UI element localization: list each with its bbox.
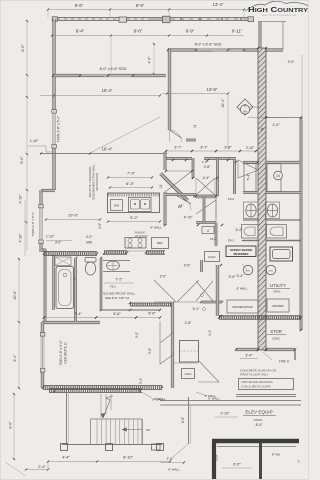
wall under tubs <box>242 240 258 242</box>
bottom dim line stairs <box>48 461 170 463</box>
note box OFFSET SHOWN REVERSED <box>226 246 256 257</box>
leader 5 wall <box>196 392 207 396</box>
jog step lines <box>28 145 46 147</box>
washer dryer left <box>227 300 258 313</box>
leader fire door <box>263 352 272 360</box>
hvac2 box <box>182 369 195 379</box>
svg-text:8′-6″: 8′-6″ <box>75 3 84 8</box>
dim 7'-4 / 5'-6 bedroom2 <box>44 317 160 319</box>
svg-text:3′-6″: 3′-6″ <box>184 264 192 268</box>
svg-text:8″ WALL: 8″ WALL <box>168 468 180 472</box>
svg-text:CEN (NOTE 2): CEN (NOTE 2) <box>64 342 68 363</box>
svg-text:8′-0″: 8′-0″ <box>21 44 25 52</box>
wall under toilets <box>243 219 258 221</box>
svg-text:6′-9″: 6′-9″ <box>186 29 195 34</box>
door swing hall <box>196 200 216 222</box>
top wall window mullion <box>119 17 127 22</box>
svg-text:3′-0″: 3′-0″ <box>288 60 296 64</box>
svg-text:3′-8″: 3′-8″ <box>148 347 152 354</box>
svg-text:4′-4″: 4′-4″ <box>62 456 70 460</box>
svg-text:4′-10″: 4′-10″ <box>19 233 23 243</box>
dim 13'-8 bedroom1 <box>167 93 228 95</box>
note TWIN CEN window bedroom <box>41 335 44 370</box>
svg-text:16′-4″: 16′-4″ <box>102 147 113 152</box>
svg-text:8″ WALL: 8″ WALL <box>237 287 248 291</box>
stipple wall kitchen side <box>104 251 127 254</box>
dim 1'-0 firewall <box>248 117 285 119</box>
entry walls <box>201 260 203 272</box>
svg-text:2′-4″: 2′-4″ <box>38 465 46 469</box>
right closet walls <box>266 161 283 163</box>
svg-text:SEE DTL SHT A4: SEE DTL SHT A4 <box>105 296 130 300</box>
svg-text:6′-1″: 6′-1″ <box>193 307 201 311</box>
door arc kitchen entry <box>177 196 191 210</box>
dim 10'-0 <box>46 219 100 221</box>
svg-text:UTILITY: UTILITY <box>270 283 286 288</box>
svg-text:3′-7″: 3′-7″ <box>174 146 182 150</box>
right bathtub <box>267 225 287 239</box>
svg-text:8′-4″: 8′-4″ <box>13 354 17 362</box>
svg-text:F5-2: F5-2 <box>228 197 235 201</box>
svg-text:4′-0″: 4′-0″ <box>148 56 152 64</box>
top wall door post <box>163 16 171 23</box>
left toilet <box>244 202 259 219</box>
svg-text:14: 14 <box>276 174 280 178</box>
wc room right wall <box>217 158 219 196</box>
deck edge line right of firewall <box>258 21 286 23</box>
svg-text:CONC: CONC <box>254 418 264 422</box>
svg-text:7′-: 7′- <box>297 460 300 464</box>
svg-text:8′-10″: 8′-10″ <box>123 456 133 460</box>
dim extent bottom left <box>5 462 26 476</box>
svg-text:F5-1: F5-1 <box>110 285 116 289</box>
opening ticks scatter <box>165 170 167 172</box>
svg-text:3′-4″: 3′-4″ <box>245 354 253 358</box>
svg-text:VINYL: VINYL <box>273 290 281 294</box>
svg-text:6′-2″: 6′-2″ <box>236 228 244 232</box>
svg-text:6′-11″: 6′-11″ <box>232 29 243 34</box>
left wall jog at living room <box>41 189 55 191</box>
left wall TWIN window <box>53 112 56 146</box>
left exterior wall mid <box>40 190 42 252</box>
svg-text:9′-2″: 9′-2″ <box>130 215 139 220</box>
top wall corner post left <box>52 17 57 22</box>
bath top walls <box>166 157 192 159</box>
svg-text:8′-0″ x 6′-8″ SGD: 8′-0″ x 6′-8″ SGD <box>195 43 222 47</box>
door swings bedroom2 <box>160 321 174 343</box>
circle 14 marker <box>274 171 283 180</box>
svg-text:8′-4″: 8′-4″ <box>76 29 85 34</box>
svg-text:7″: 7″ <box>73 277 76 281</box>
hall west wall <box>164 152 166 170</box>
svg-text:1′-10″: 1′-10″ <box>46 235 55 239</box>
center vertical wall <box>188 397 190 444</box>
svg-text:SECTION R/44: SECTION R/44 <box>95 173 99 191</box>
svg-text:4′-4″: 4′-4″ <box>203 176 211 180</box>
svg-text:2′-8″: 2′-8″ <box>204 165 212 169</box>
closet bottom walls <box>243 192 258 194</box>
svg-text:TR′D WOOD DECKING: TR′D WOOD DECKING <box>241 380 273 384</box>
stair bottom wall <box>62 444 162 446</box>
leader to sheathing note <box>89 117 160 154</box>
svg-text:HVAC: HVAC <box>184 372 191 376</box>
svg-text:6″ WALL: 6″ WALL <box>208 397 220 401</box>
svg-text:2 ND & 3RD FLOORS: 2 ND & 3RD FLOORS <box>241 385 271 389</box>
wc double door X <box>196 178 215 195</box>
stair direction line with break <box>103 396 113 418</box>
svg-text:10′-6″: 10′-6″ <box>13 290 17 300</box>
svg-text:4′-6″: 4′-6″ <box>98 222 102 229</box>
left wall corner at bath <box>41 249 46 251</box>
svg-text:8″ WALL: 8″ WALL <box>150 226 162 230</box>
svg-text:4′-=6″: 4′-=6″ <box>184 216 194 220</box>
left SGD door symbol <box>80 73 108 75</box>
leader wh <box>242 264 247 270</box>
dim 7'-3 kitchen <box>108 177 152 179</box>
svg-text:16′-1″: 16′-1″ <box>221 98 225 108</box>
svg-text:10′-0″: 10′-0″ <box>68 213 79 218</box>
svg-text:3′-0″: 3′-0″ <box>55 241 62 245</box>
wall right of toilet <box>100 258 102 310</box>
dim 8'-4 left rot <box>18 323 20 389</box>
right SGD door symbol <box>196 48 228 50</box>
dim line 16'-4 upper <box>40 95 160 97</box>
closet2 box <box>180 341 199 363</box>
svg-text:WASHER/DRYER: WASHER/DRYER <box>232 306 252 309</box>
svg-text:5′-6″: 5′-6″ <box>229 275 237 279</box>
svg-text:13′-4″: 13′-4″ <box>213 2 224 7</box>
dim 10'-6 left rot <box>18 258 20 323</box>
master vanity <box>103 260 130 262</box>
svg-text:4′: 4′ <box>207 229 210 233</box>
register box <box>202 227 214 234</box>
stair landing line <box>91 418 143 420</box>
svg-text:6′-3″: 6′-3″ <box>126 181 135 186</box>
svg-text:W.H.: W.H. <box>246 271 251 273</box>
svg-text:REQUIREMENTS THIS WALL: REQUIREMENTS THIS WALL <box>92 164 96 200</box>
master bathtub <box>56 267 74 309</box>
svg-text:16′-4″: 16′-4″ <box>102 88 113 93</box>
washer dryer right <box>267 299 289 312</box>
svg-text:6′-5″: 6′-5″ <box>233 463 241 467</box>
double lines below note <box>236 394 296 396</box>
dim 4'-10 left rot <box>24 200 26 256</box>
svg-text:5′: 5′ <box>194 125 197 129</box>
svg-text:MIN: MIN <box>86 241 93 245</box>
door swing large bottom <box>198 360 219 382</box>
interior wall right of bedroom2 <box>171 303 173 388</box>
door header line in gap <box>127 250 146 252</box>
bedroom left exterior wall <box>41 322 44 388</box>
top dimension line <box>48 9 244 11</box>
office shown reversed dark box <box>223 245 225 247</box>
left closet walls (west of firewall) <box>243 161 258 163</box>
east wall of right rooms <box>300 117 302 330</box>
svg-text:11′: 11′ <box>159 184 163 188</box>
svg-text:ELIM: ELIM <box>215 455 219 461</box>
svg-text:TWIN 2′-8″ x 5′-0″: TWIN 2′-8″ x 5′-0″ <box>57 115 61 142</box>
right rooms upper wall <box>266 117 301 119</box>
wall under tub room <box>42 321 100 323</box>
svg-text:2′-10″: 2′-10″ <box>220 412 230 416</box>
svg-text:6″ WALL: 6″ WALL <box>154 397 166 401</box>
door swing bath1 <box>165 171 192 192</box>
leader 6 wall <box>140 391 152 398</box>
svg-text:8′-0″: 8′-0″ <box>134 29 143 34</box>
svg-text:A4: A4 <box>243 110 247 114</box>
svg-text:OFFSET SHOWN: OFFSET SHOWN <box>230 248 252 252</box>
svg-text:7′-6″: 7′-6″ <box>166 457 174 461</box>
svg-text:2′-10″: 2′-10″ <box>246 146 255 150</box>
svg-text:4′-4″: 4′-4″ <box>208 329 212 336</box>
svg-text:3′-7″: 3′-7″ <box>200 146 208 150</box>
refrigerator REF <box>152 238 169 249</box>
stair right edge <box>141 419 143 445</box>
svg-text:CONC: CONC <box>272 337 280 341</box>
wc room left wall <box>192 158 194 178</box>
svg-text:8′-0″: 8′-0″ <box>9 421 13 429</box>
kitchen counter backsplash hatch <box>108 194 159 197</box>
guest side appliance box <box>270 247 293 261</box>
window jambs upper <box>52 110 57 114</box>
High Country logo mountain outline <box>245 1 308 11</box>
wall segment right of door <box>186 139 196 141</box>
svg-text:UP: UP <box>146 428 150 432</box>
boxed note wood decking <box>239 379 294 390</box>
svg-text:2′-8″: 2′-8″ <box>185 321 193 325</box>
thin wall from top wall down to SGD wall <box>259 21 261 49</box>
svg-text:TWIN 2′-8″ x 5′-0″: TWIN 2′-8″ x 5′-0″ <box>59 340 63 366</box>
dim 6'-9 <box>169 35 244 37</box>
small box left of elev room <box>152 444 161 450</box>
svg-text:M U L T I P L E L I S T I N: M U L T I P L E L I S T I N G S E R V I … <box>262 15 297 17</box>
svg-text:FIRST FLOOR ONLY: FIRST FLOOR ONLY <box>240 373 269 377</box>
dim 6'-3 kitchen <box>110 187 152 189</box>
section marker diamond 2/A4 <box>237 99 253 115</box>
master tub room walls <box>75 258 77 322</box>
kitchen angled wall <box>161 174 188 201</box>
elev room inner lines <box>217 446 296 448</box>
door swing bath2 <box>196 198 216 218</box>
svg-text:ELEV EQUIP: ELEV EQUIP <box>245 410 272 415</box>
stair treads <box>96 419 98 445</box>
bath closet wall right <box>233 160 235 194</box>
svg-text:3′-4″: 3′-4″ <box>139 377 143 384</box>
svg-text:TWIN 2′-8″ x 5′-0″: TWIN 2′-8″ x 5′-0″ <box>31 211 35 236</box>
hall middle wall <box>203 196 205 224</box>
svg-text:DW: DW <box>114 204 119 208</box>
dim extent bedroom1 <box>227 94 229 151</box>
svg-text:REF: REF <box>157 241 163 245</box>
left bathtub <box>242 225 259 239</box>
stair posts <box>61 444 68 451</box>
left SGD wall <box>53 74 166 77</box>
right SGD wall <box>168 49 283 52</box>
master toilet <box>85 258 96 263</box>
svg-text:13′-8″: 13′-8″ <box>207 87 218 92</box>
svg-text:7′-2″: 7′-2″ <box>115 278 123 282</box>
stipple wall kitchen side 2 <box>146 251 165 254</box>
left vertical dim chain <box>26 20 28 250</box>
dim extent line left <box>47 10 49 19</box>
elev room walls <box>212 439 299 444</box>
left dim 8'-0 bottom <box>13 393 15 460</box>
dimension line under top wall <box>52 35 169 37</box>
svg-text:1′-0″: 1′-0″ <box>272 123 280 127</box>
kitchen counter outline <box>108 193 160 213</box>
dim extent 111 <box>110 36 112 74</box>
stipple wall under washers <box>219 316 301 319</box>
dishwasher DW <box>111 200 123 211</box>
svg-text:HVAC: HVAC <box>208 255 216 259</box>
wall top bedroom2 right <box>130 303 172 306</box>
svg-text:F5-1: F5-1 <box>228 239 235 243</box>
dim 9'-2 <box>108 221 160 223</box>
svg-text:3′-0″: 3′-0″ <box>160 275 168 279</box>
svg-text:FIRE D: FIRE D <box>279 360 290 364</box>
double lines upper <box>160 400 301 402</box>
stair room left wall <box>66 392 68 445</box>
water heater circles <box>243 265 253 275</box>
svg-text:3′-0″: 3′-0″ <box>135 331 139 338</box>
bedroom1 door opening arc <box>170 130 182 142</box>
stair up arrow <box>122 429 142 431</box>
faint east wall upper <box>301 55 303 117</box>
stair top stipple wall <box>49 389 142 393</box>
svg-text:8′-0″ x 6′-8″ SGD: 8′-0″ x 6′-8″ SGD <box>100 67 127 71</box>
mid wall TWIN window <box>40 207 42 241</box>
top wall dots <box>180 18 182 20</box>
svg-text:8′-0″: 8′-0″ <box>20 156 24 164</box>
hvac small box left <box>205 252 220 262</box>
svg-text:6′-8″: 6′-8″ <box>181 416 185 423</box>
entry double door X leaves <box>196 281 213 301</box>
svg-text:F5-1: F5-1 <box>210 237 217 241</box>
svg-text:7′-4″: 7′-4″ <box>74 312 82 316</box>
bath inner wall <box>53 255 55 310</box>
svg-text:1′-10″: 1′-10″ <box>30 139 39 143</box>
svg-text:WASHER/: WASHER/ <box>272 305 284 308</box>
bedroom1 door leaf <box>170 130 182 138</box>
stipple wall master bath <box>44 252 97 256</box>
svg-text:5′-6″: 5′-6″ <box>113 312 121 316</box>
line from diamond to firewall <box>249 106 258 108</box>
svg-text:4′-0″: 4′-0″ <box>86 235 93 239</box>
svg-text:W.H.: W.H. <box>269 271 274 273</box>
stair upper flight break line <box>100 394 102 418</box>
bedroom2 bottom stipple wall <box>43 386 162 390</box>
svg-text:8′-4″: 8′-4″ <box>256 423 264 427</box>
left exterior wall upper <box>53 19 56 190</box>
hall east wall thick <box>216 265 219 316</box>
right rooms bottom wall <box>236 348 258 350</box>
svg-text:8′-6″: 8′-6″ <box>136 3 145 8</box>
top wall corner post right <box>248 17 254 22</box>
dim line 16'-4 lower / kitchen wall <box>40 153 167 155</box>
svg-text:4′-10″: 4′-10″ <box>19 194 23 204</box>
svg-text:3′-8″: 3′-8″ <box>224 146 232 150</box>
sound wall line <box>101 309 160 311</box>
top exterior wall <box>53 17 253 20</box>
double door swings entry <box>154 280 176 302</box>
bath left exterior wall <box>44 249 46 323</box>
svg-text:8″ WA: 8″ WA <box>272 453 280 457</box>
bedroom1 west wall vertical <box>168 48 171 130</box>
svg-text:5′-4″: 5′-4″ <box>247 173 251 181</box>
leader to elev wall <box>173 444 188 457</box>
svg-text:STOR: STOR <box>270 329 282 334</box>
svg-text:REVERSED: REVERSED <box>234 252 249 256</box>
right toilet <box>266 202 280 219</box>
kitchen sink double <box>129 198 152 212</box>
dim line hall 3'-7 3'-7 3'-8 2'-10 <box>166 150 256 152</box>
linen cabinet with X <box>55 257 71 266</box>
dim 2'-4 <box>26 469 48 471</box>
svg-text:SEE NOTE 1 SHEATHING: SEE NOTE 1 SHEATHING <box>88 167 92 198</box>
svg-text:5′-6″: 5′-6″ <box>148 312 156 316</box>
hall walls lower <box>166 194 196 196</box>
line under closet2 <box>173 362 198 364</box>
wc room bottom wall <box>193 195 218 197</box>
door tag circles <box>201 294 204 297</box>
svg-text:7′-3″: 7′-3″ <box>127 171 136 176</box>
svg-text:5′-4″: 5′-4″ <box>237 274 245 278</box>
top wall glazing dashes <box>60 18 150 20</box>
hall wall segment <box>196 222 216 224</box>
hall wall at hvac <box>215 223 217 247</box>
